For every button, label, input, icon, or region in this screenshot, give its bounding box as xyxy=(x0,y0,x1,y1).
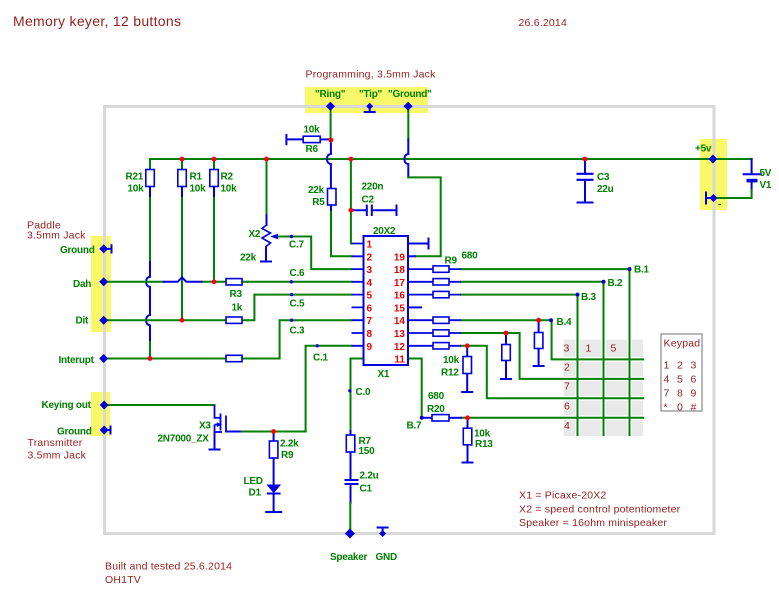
svg-text:Transmitter: Transmitter xyxy=(28,437,83,449)
svg-text:C2: C2 xyxy=(362,195,375,206)
wire pin 20 stub with terminator xyxy=(408,239,429,249)
svg-text:12: 12 xyxy=(394,342,406,353)
wire pin 19 stub xyxy=(408,255,415,257)
svg-text:X2: X2 xyxy=(249,229,261,240)
svg-text:17: 17 xyxy=(394,278,406,289)
svg-text:C.5: C.5 xyxy=(290,299,306,310)
resistor pin13 680 xyxy=(433,330,449,336)
resistor R9 2.2k xyxy=(269,441,278,458)
svg-text:19: 19 xyxy=(394,252,406,263)
IC pin numbers left xyxy=(367,240,373,353)
svg-text:2: 2 xyxy=(677,360,683,372)
svg-text:V1: V1 xyxy=(760,180,772,191)
wire hop ground over bus xyxy=(405,154,409,164)
pin stubs left of IC X1 xyxy=(352,244,364,346)
node bus R2 xyxy=(212,157,217,162)
svg-text:10k: 10k xyxy=(128,184,145,195)
wire tx ground stub xyxy=(104,427,110,434)
wire R6 right lead xyxy=(321,138,331,140)
svg-text:X3: X3 xyxy=(199,421,211,432)
LED D1 xyxy=(268,485,281,493)
svg-text:"Ground": "Ground" xyxy=(388,89,432,100)
IC pin numbers right xyxy=(394,252,406,365)
wire R2 column bottom to Dah row xyxy=(213,196,215,282)
svg-text:Keypad: Keypad xyxy=(664,338,701,350)
node B.1 xyxy=(628,267,632,271)
node ring jack xyxy=(326,102,335,111)
wire LED to ground xyxy=(273,494,275,512)
wire R7 top lead xyxy=(350,431,352,435)
svg-text:Programming, 3.5mm Jack: Programming, 3.5mm Jack xyxy=(306,69,437,81)
svg-text:10k: 10k xyxy=(443,355,460,366)
wire pin 15 stub xyxy=(408,306,421,308)
node B.7 xyxy=(420,416,424,420)
svg-text:22k: 22k xyxy=(308,185,325,196)
svg-text:2: 2 xyxy=(564,362,570,374)
svg-text:10k: 10k xyxy=(190,184,207,195)
node dah xyxy=(99,277,108,286)
svg-text:R1: R1 xyxy=(190,172,203,183)
svg-text:7: 7 xyxy=(664,388,670,400)
wire pulldown pin14 xyxy=(538,320,540,365)
svg-text:2.2u: 2.2u xyxy=(360,471,379,482)
svg-text:Built and tested 25.6.2014: Built and tested 25.6.2014 xyxy=(105,561,232,573)
wire C2 left lead xyxy=(351,209,366,211)
highlight transmitter jack xyxy=(91,392,110,436)
svg-text:7: 7 xyxy=(564,381,570,393)
node B.3 xyxy=(576,293,580,297)
wire bus to pin1 with C2 tap xyxy=(350,159,353,244)
node dah R2 xyxy=(212,279,217,284)
wire +5v to battery top xyxy=(712,158,752,160)
wire R21 column top xyxy=(149,159,151,169)
ground symbol R13 xyxy=(463,462,473,464)
wire ring column: jack to R6 junction xyxy=(330,107,332,140)
battery minus terminal bar xyxy=(706,193,711,204)
svg-text:OH1TV: OH1TV xyxy=(105,574,141,586)
svg-text:22k: 22k xyxy=(240,253,257,264)
resistor R6 10k xyxy=(303,136,320,142)
svg-text:R3: R3 xyxy=(230,289,243,300)
wire pin 13 to keypad row 7 xyxy=(461,333,643,379)
svg-text:Ground: Ground xyxy=(60,245,95,256)
wire hop ring over bus xyxy=(327,154,331,164)
wire +5v bus xyxy=(150,158,712,160)
svg-text:5: 5 xyxy=(367,291,373,302)
svg-text:10k: 10k xyxy=(221,184,238,195)
node C.3 xyxy=(290,319,293,322)
svg-text:-: - xyxy=(718,199,721,210)
resistor R20 680 xyxy=(432,415,449,421)
wire pin 18 to B.1 xyxy=(461,268,629,270)
node R6 ring xyxy=(329,138,334,143)
resistor R13 10k xyxy=(463,428,472,445)
wire B.7 to R20 xyxy=(422,417,432,419)
svg-text:5: 5 xyxy=(611,343,617,355)
svg-text:26.6.2014: 26.6.2014 xyxy=(519,17,568,29)
svg-text:R12: R12 xyxy=(441,368,459,379)
wire B.2 column down keypad xyxy=(603,284,605,436)
svg-text:Dah: Dah xyxy=(73,279,91,290)
svg-text:2N7000_ZX: 2N7000_ZX xyxy=(158,434,210,445)
wire X3 source to ground xyxy=(214,433,216,449)
wire R21 column bottom to Interupt row xyxy=(149,196,151,359)
svg-text:Speaker = 16ohm minispeaker: Speaker = 16ohm minispeaker xyxy=(519,517,667,529)
node pin13 pulldown xyxy=(504,331,509,336)
svg-text:15: 15 xyxy=(394,303,406,314)
resistor R1 10k xyxy=(178,170,187,187)
svg-text:220n: 220n xyxy=(362,182,384,193)
svg-text:150: 150 xyxy=(359,446,376,457)
svg-text:14: 14 xyxy=(394,316,406,327)
svg-text:4: 4 xyxy=(664,374,670,386)
ground symbol X3 xyxy=(210,449,220,451)
ground symbol C3 xyxy=(578,202,593,204)
node C.6 xyxy=(290,280,293,283)
svg-text:"Tip": "Tip" xyxy=(359,89,383,100)
keypad matrix grid xyxy=(564,340,643,436)
svg-text:2: 2 xyxy=(367,252,373,263)
svg-text:6: 6 xyxy=(564,401,570,413)
svg-text:3.5mm Jack: 3.5mm Jack xyxy=(27,230,86,242)
svg-text:R13: R13 xyxy=(475,439,493,450)
wire R13 leads xyxy=(467,418,469,462)
node C.7 xyxy=(290,235,293,238)
ground symbol R12 xyxy=(462,391,472,393)
resistor R7 150 xyxy=(346,435,355,452)
svg-text:0: 0 xyxy=(677,402,683,414)
wire C1 to speaker xyxy=(350,485,352,504)
svg-text:Interupt: Interupt xyxy=(59,355,95,366)
svg-text:680: 680 xyxy=(428,391,445,402)
svg-text:+5v: +5v xyxy=(695,144,712,155)
svg-text:*: * xyxy=(664,402,668,414)
wire dit row xyxy=(104,319,248,321)
wire R6 left terminator xyxy=(286,135,303,144)
ground symbol pulldown pin14 xyxy=(534,365,544,367)
svg-text:"Ring": "Ring" xyxy=(315,89,346,100)
node pin12 R12 xyxy=(465,343,470,348)
ground symbol LED xyxy=(266,511,281,513)
wire X2 wiper to pin 3 (C.7 net) xyxy=(278,237,352,270)
wire pin 11 to B.7 xyxy=(408,359,422,418)
resistor pin18 680 R9 xyxy=(433,266,449,272)
node gnd xyxy=(379,530,386,537)
wire X2 bottom to ground xyxy=(265,247,267,261)
svg-text:11: 11 xyxy=(394,355,405,366)
transistor X3 arrow xyxy=(217,422,222,427)
wire ring column R6 junction to R5 (hop over bus) xyxy=(330,140,332,188)
svg-text:5: 5 xyxy=(677,374,683,386)
node interupt xyxy=(99,354,108,363)
wire pin 12 to keypad row 6 xyxy=(461,346,643,399)
svg-text:#: # xyxy=(691,402,697,414)
svg-text:X2 = speed control potentiomet: X2 = speed control potentiometer xyxy=(519,504,681,516)
battery V1 5V xyxy=(743,173,762,175)
wire dah blue segment with bump over R1 column xyxy=(164,277,202,281)
highlight paddle jack xyxy=(91,236,111,332)
resistor R3 1k xyxy=(226,279,242,285)
svg-text:Memory keyer, 12 buttons: Memory keyer, 12 buttons xyxy=(13,13,181,29)
svg-text:2.2k: 2.2k xyxy=(280,439,299,450)
node bus pin1 xyxy=(349,157,354,162)
wire pin 14 to B.4 xyxy=(461,319,551,321)
node C.5 xyxy=(290,293,293,296)
node bus X2 xyxy=(264,157,269,162)
node battery minus xyxy=(709,194,717,202)
wire keying out to X3 gate xyxy=(104,404,215,406)
resistor pulldown pin13 10k xyxy=(502,345,511,361)
resistor pin12 680 xyxy=(433,343,449,349)
frame connector diamonds xyxy=(99,102,717,539)
resistor pin17 680 xyxy=(433,279,449,285)
node B.2 xyxy=(602,280,606,284)
wire ground jack column xyxy=(407,107,409,140)
svg-text:6: 6 xyxy=(691,374,697,386)
wire pulldown pin13 xyxy=(505,333,507,379)
node R20 R13 xyxy=(465,415,470,420)
svg-text:13: 13 xyxy=(394,329,406,340)
svg-text:C1: C1 xyxy=(360,484,373,495)
svg-text:1: 1 xyxy=(367,240,373,251)
wire C2 right lead with terminator xyxy=(373,206,397,216)
node paddle ground xyxy=(99,244,108,253)
wire R1 column bottom to Dit row xyxy=(181,196,183,320)
wire R2 column top xyxy=(213,159,215,169)
svg-text:C3: C3 xyxy=(597,172,610,183)
resistor pulldown pin14 10k xyxy=(534,333,543,349)
svg-text:3.5mm Jack: 3.5mm Jack xyxy=(28,450,87,462)
highlight programming jack xyxy=(305,87,428,113)
pin stubs right of IC X1 xyxy=(408,269,461,346)
svg-text:R6: R6 xyxy=(306,144,319,155)
svg-text:R20: R20 xyxy=(427,404,445,415)
svg-text:680: 680 xyxy=(462,251,479,262)
svg-text:9: 9 xyxy=(691,388,697,400)
node C2 tap xyxy=(349,208,354,213)
svg-text:Speaker: Speaker xyxy=(330,552,368,563)
svg-text:R2: R2 xyxy=(221,172,234,183)
node drain R9 xyxy=(271,429,276,434)
wire R21 column jog over dit xyxy=(146,315,150,340)
wire tip stub xyxy=(365,107,375,112)
wire R21 column jog over dah xyxy=(146,277,150,315)
node C.0 xyxy=(348,389,351,392)
resistor R21 10k xyxy=(146,170,155,187)
svg-text:1k: 1k xyxy=(232,303,243,314)
node B.4 xyxy=(549,318,553,322)
svg-text:6: 6 xyxy=(367,303,373,314)
svg-text:3: 3 xyxy=(564,343,570,355)
wire R7 to C1 xyxy=(350,452,352,480)
wire R5 to pin 2 xyxy=(330,205,332,212)
wire battery bottom to minus node xyxy=(751,183,753,191)
svg-text:10k: 10k xyxy=(474,429,491,440)
svg-text:Ground: Ground xyxy=(57,427,92,438)
svg-text:LED: LED xyxy=(244,476,263,487)
node pin14 pulldown xyxy=(536,318,541,323)
resistor interupt row xyxy=(226,355,242,361)
node tip jack xyxy=(366,103,373,110)
svg-text:D1: D1 xyxy=(249,488,262,499)
resistor R2 10k xyxy=(210,170,219,187)
node speaker xyxy=(345,529,355,539)
svg-text:R9: R9 xyxy=(281,450,294,461)
svg-text:B.4: B.4 xyxy=(557,317,573,328)
svg-text:5V: 5V xyxy=(760,168,772,179)
wire C.1 to pin 9 xyxy=(306,346,352,432)
ground symbol X2 xyxy=(261,261,271,263)
wire dah row xyxy=(104,281,248,283)
highlight +5v node xyxy=(700,139,727,210)
svg-text:3: 3 xyxy=(367,265,373,276)
wire ground jack to pin 19 xyxy=(408,177,440,256)
node tx ground xyxy=(100,426,109,435)
svg-text:C.3: C.3 xyxy=(290,326,306,337)
node interupt R21 xyxy=(148,356,153,361)
svg-text:16: 16 xyxy=(394,291,406,302)
wire B.4 to keypad row 2 xyxy=(552,322,643,359)
wire X3 drain row to C.1 xyxy=(240,431,306,433)
svg-text:B.3: B.3 xyxy=(581,292,597,303)
svg-text:3: 3 xyxy=(691,360,697,372)
node bus C3 xyxy=(583,157,588,162)
svg-text:X1 = Picaxe-20X2: X1 = Picaxe-20X2 xyxy=(519,490,607,502)
potentiometer X2 wiper arrow xyxy=(270,234,278,239)
svg-text:X1: X1 xyxy=(378,369,390,380)
wire B.1 column down keypad xyxy=(629,271,631,435)
wire C3 bottom to ground xyxy=(584,181,586,203)
resistor pin16 680 xyxy=(433,291,449,297)
svg-text:20X2: 20X2 xyxy=(373,226,396,237)
svg-text:18: 18 xyxy=(394,265,406,276)
net label dots xyxy=(290,235,632,420)
wire pin 16 to B.3 xyxy=(461,294,577,296)
capacitor C1 2.2u xyxy=(345,480,359,484)
svg-text:10k: 10k xyxy=(304,125,321,136)
node bus R1 xyxy=(180,157,185,162)
wire interupt row xyxy=(104,358,248,360)
keypad legend box xyxy=(661,334,702,411)
wire R9 led leads xyxy=(273,432,275,486)
svg-text:Keying out: Keying out xyxy=(42,400,92,411)
svg-text:22u: 22u xyxy=(597,184,614,195)
svg-text:R5: R5 xyxy=(312,197,325,208)
svg-text:C.1: C.1 xyxy=(313,353,329,364)
svg-text:4: 4 xyxy=(564,420,570,432)
node dit R1 xyxy=(180,318,185,323)
resistor R5 22k xyxy=(328,189,337,206)
svg-text:B.1: B.1 xyxy=(634,265,650,276)
svg-text:1: 1 xyxy=(586,343,592,355)
svg-text:8: 8 xyxy=(367,329,373,340)
svg-text:7: 7 xyxy=(367,316,373,327)
wire R1 column top xyxy=(181,159,183,169)
wire paddle ground stub xyxy=(104,245,112,252)
wire pin 17 to B.2 xyxy=(461,281,603,283)
svg-text:4: 4 xyxy=(367,278,373,289)
svg-text:C.6: C.6 xyxy=(290,268,306,279)
wire gnd bottom stub xyxy=(378,528,388,534)
svg-text:1: 1 xyxy=(664,360,670,372)
svg-text:B.2: B.2 xyxy=(608,278,624,289)
svg-text:C.0: C.0 xyxy=(356,387,372,398)
svg-text:R21: R21 xyxy=(126,172,144,183)
wire pin 10 to C.0 and R7 xyxy=(351,359,364,432)
node keying out xyxy=(100,401,109,410)
ground symbol pulldown pin13 xyxy=(501,378,511,380)
wire X3 drain lead xyxy=(226,431,240,433)
capacitor C3 22u xyxy=(577,174,594,180)
transistor X3 2N7000 xyxy=(215,405,227,433)
capacitor C2 220n xyxy=(367,205,372,217)
potentiometer X2 22k xyxy=(262,225,271,248)
svg-text:B.7: B.7 xyxy=(407,421,423,432)
svg-text:C.7: C.7 xyxy=(289,240,305,251)
svg-text:R9: R9 xyxy=(445,256,458,267)
node ground jack programming xyxy=(404,102,413,111)
resistor R12 10k xyxy=(463,357,472,374)
node dit xyxy=(99,316,108,325)
resistor pin14 680 xyxy=(433,317,449,323)
svg-text:8: 8 xyxy=(677,388,683,400)
wire R12 leads xyxy=(466,346,468,392)
svg-text:Dit: Dit xyxy=(76,316,90,327)
node C.1 xyxy=(316,344,319,347)
op-amp U1 n/a: IC X1 PICAXE-20X2 body xyxy=(364,236,409,365)
wire C3 top xyxy=(584,159,586,174)
resistor dit row 1k xyxy=(226,317,242,323)
svg-text:9: 9 xyxy=(367,342,373,353)
svg-text:GND: GND xyxy=(376,552,398,563)
wire interupt resistor to pin 7 (C.3 net) xyxy=(248,320,352,358)
wire R3 to pin 4 (C.6 net) xyxy=(248,281,352,283)
wire bus to X2 top xyxy=(266,159,268,215)
wire R20 to keypad row 4 xyxy=(461,417,643,419)
wire dit resistor to pin 5 (C.5 net) xyxy=(248,295,352,321)
node +5v xyxy=(708,155,717,164)
wire B.3 column down keypad xyxy=(577,297,579,436)
